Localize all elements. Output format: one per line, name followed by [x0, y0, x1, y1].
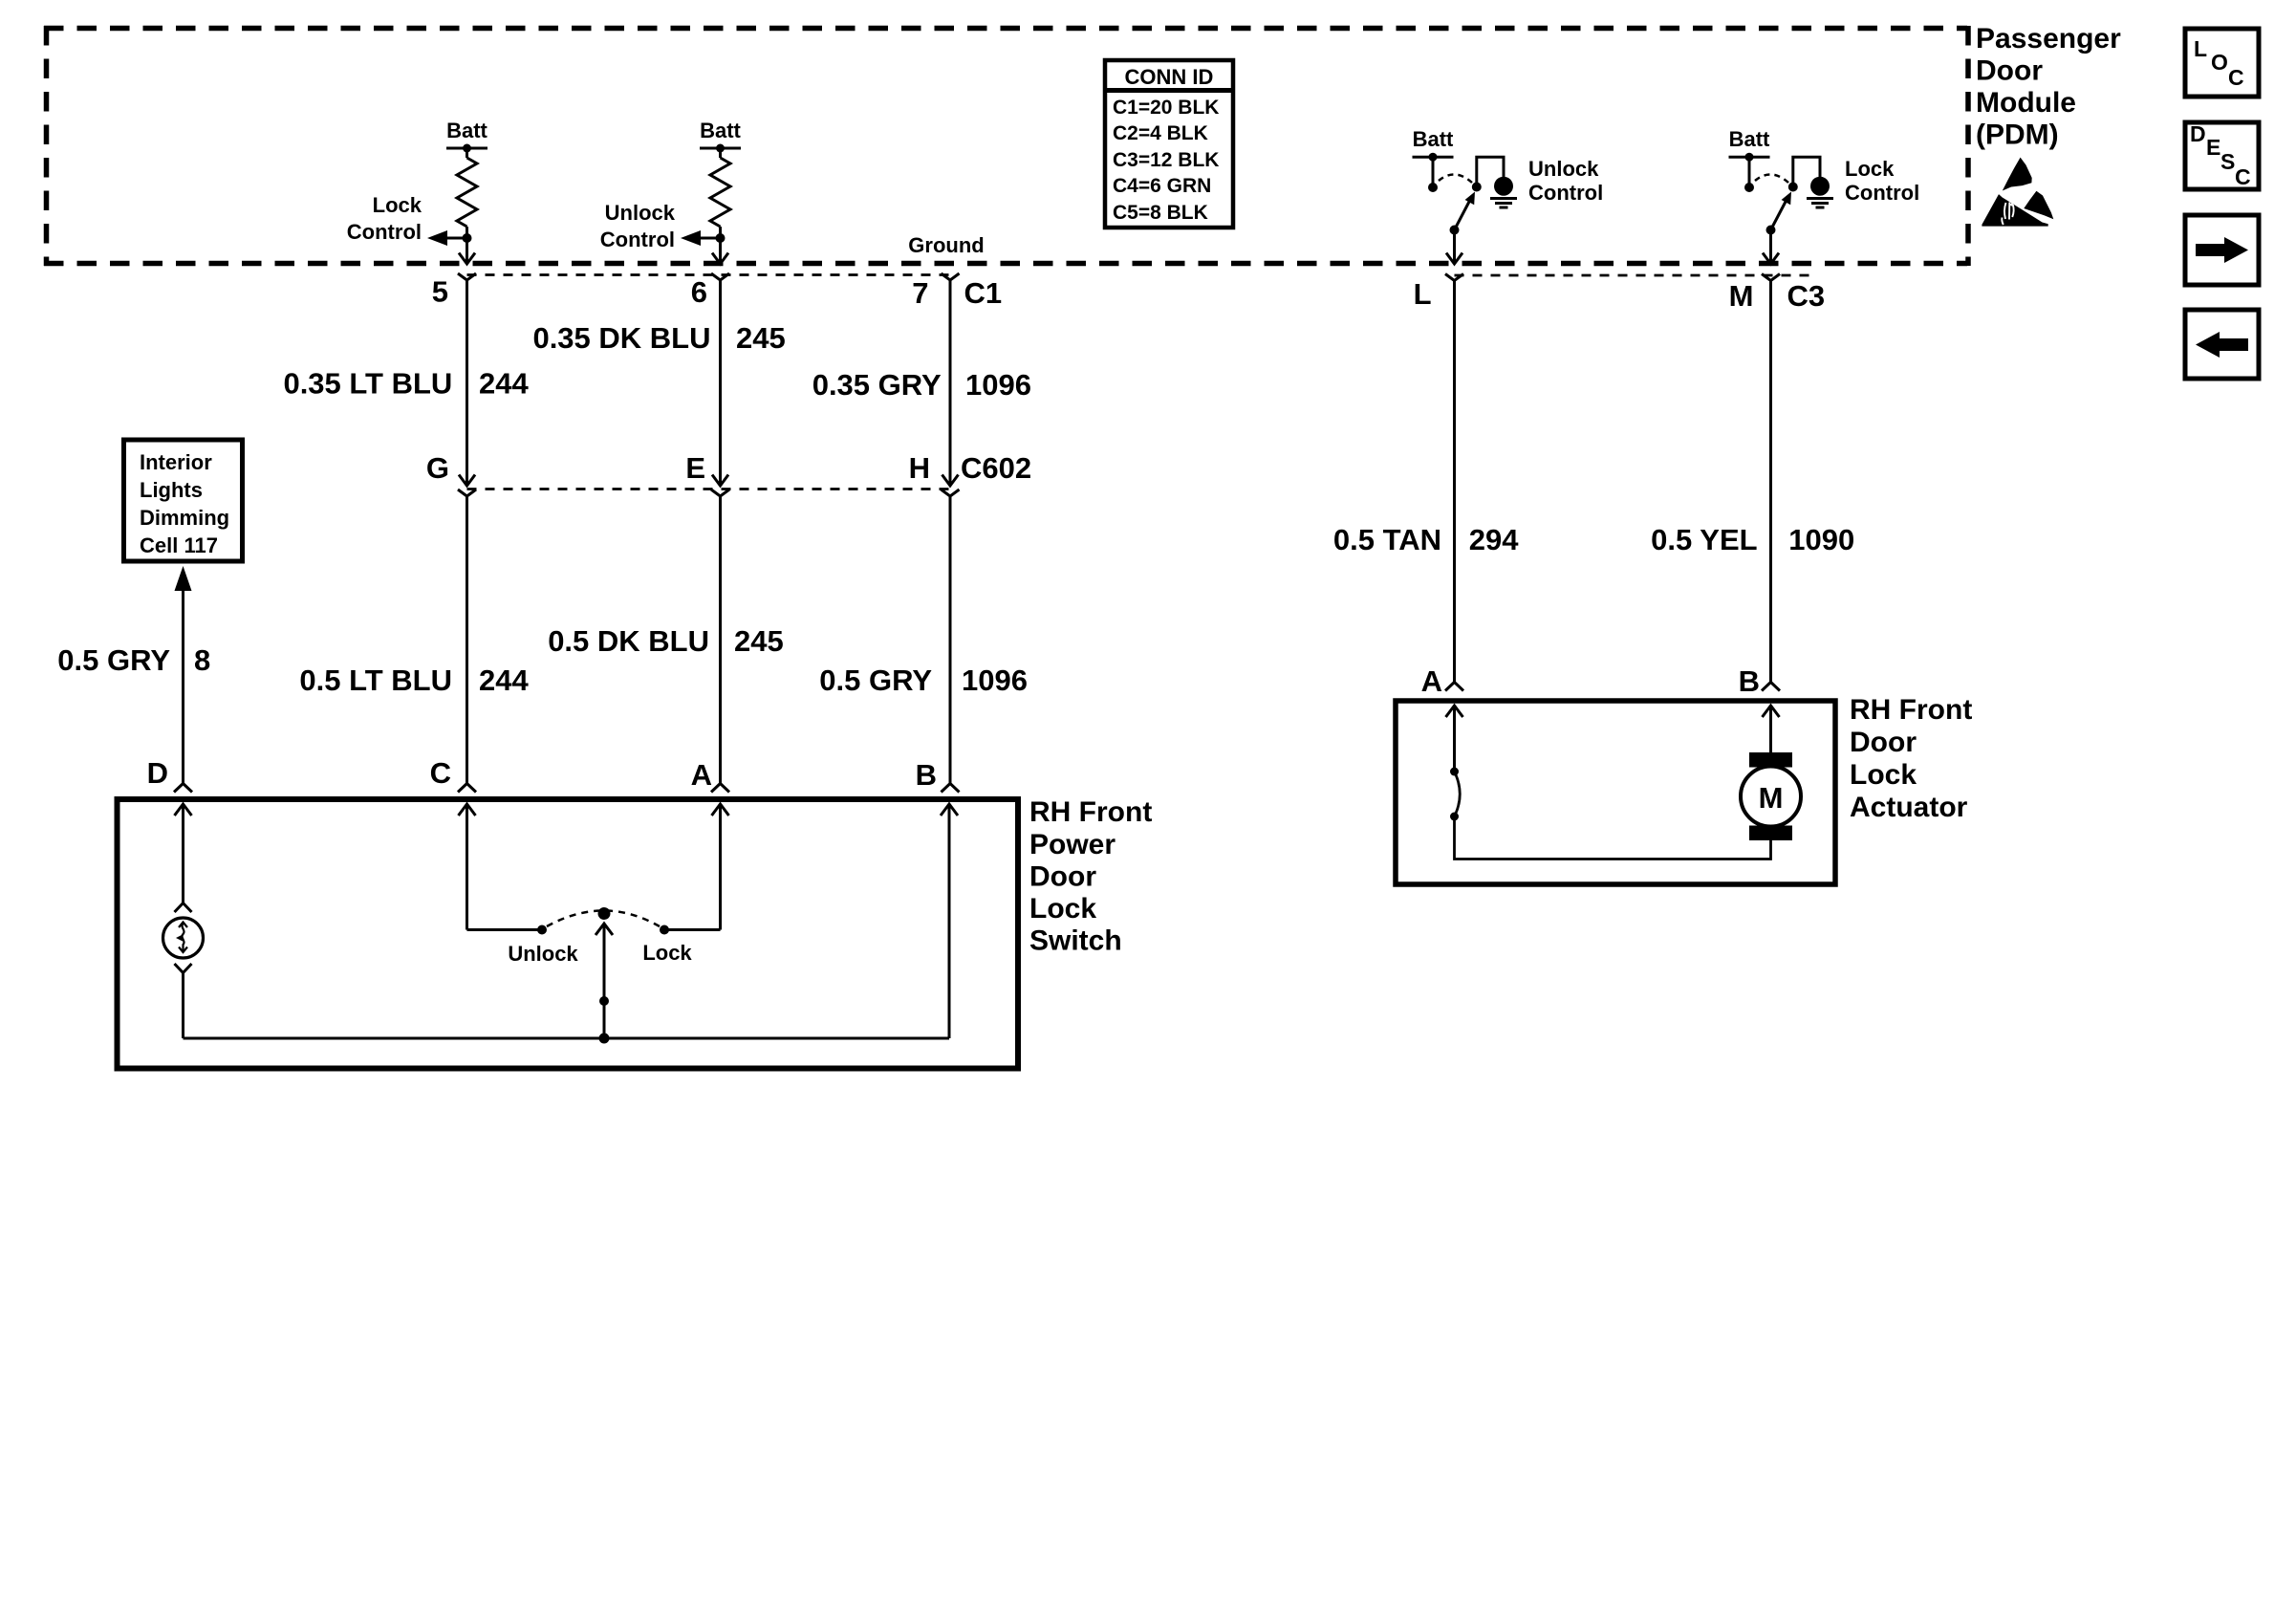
svg-text:C4=6 GRN: C4=6 GRN — [1113, 175, 1211, 197]
connector fork actuator pin B — [1762, 683, 1780, 691]
wire: pin 7 to C602 pin H (ckt 1096) — [949, 280, 952, 485]
svg-text:7: 7 — [912, 276, 928, 310]
connector fork pin E (C602) — [711, 490, 729, 496]
svg-text:Dimming: Dimming — [140, 506, 229, 530]
svg-text:E: E — [685, 451, 705, 485]
svg-text:C: C — [2235, 164, 2251, 189]
wire: pin E to switch pin A (ckt 245) — [719, 496, 722, 784]
svg-text:O: O — [2211, 50, 2228, 75]
wire: unlock control tap with left arrow — [695, 237, 721, 240]
svg-text:Control: Control — [1528, 181, 1603, 205]
svg-text:0.5 GRY: 0.5 GRY — [57, 643, 170, 677]
motor M (door lock motor) — [1749, 752, 1792, 768]
svg-text:1096: 1096 — [962, 664, 1028, 697]
connector fork pin L (C3) — [1445, 274, 1463, 281]
svg-text:Batt: Batt — [1729, 127, 1770, 151]
connector fork pin H (C602) — [942, 490, 960, 496]
connector fork actuator pin A — [1445, 683, 1463, 691]
wire: switch common bus (bottom horizontal) — [184, 1037, 950, 1040]
wire: contact bracket to ground (lock) — [1793, 157, 1820, 185]
lamp: interior illumination bulb — [163, 918, 204, 958]
connector fork pin 6 (C1) — [711, 273, 729, 280]
svg-text:0.5 TAN: 0.5 TAN — [1333, 523, 1441, 556]
wire: pole to PDM edge pin M — [1769, 230, 1772, 264]
svg-text:Power: Power — [1029, 829, 1116, 860]
svg-text:C2=4 BLK: C2=4 BLK — [1113, 122, 1208, 144]
resistor (PDM lock output driver) — [457, 158, 477, 227]
svg-text:RH Front: RH Front — [1850, 694, 1972, 726]
connector fork pin M (C3) — [1762, 274, 1780, 281]
wire: resistor to PDM edge pin 5 — [466, 227, 468, 263]
svg-text:D: D — [147, 756, 168, 790]
arrowhead into pin H — [942, 475, 959, 487]
block: RH Front Door Lock Actuator — [1396, 701, 1835, 884]
svg-text:Module: Module — [1976, 87, 2076, 119]
nav button LOC — [2185, 29, 2259, 97]
node: arm mid junction — [599, 996, 609, 1006]
arrowhead into pin 5 — [459, 253, 475, 265]
svg-text:Switch: Switch — [1029, 925, 1122, 957]
wire: PDM box left edge — [44, 26, 50, 266]
connector chevron below lamp — [175, 964, 192, 973]
svg-text:Lock: Lock — [1850, 759, 1917, 791]
switch blade arc (door lock position switch) — [1455, 772, 1461, 816]
svg-text:0.35 DK BLU: 0.35 DK BLU — [532, 321, 710, 355]
svg-text:H: H — [909, 451, 930, 485]
svg-text:M: M — [1729, 279, 1754, 313]
svg-text:C1: C1 — [964, 276, 1003, 310]
wire: pin D leg inside switch with up arrow — [175, 804, 192, 816]
svg-text:8: 8 — [194, 643, 210, 677]
Passenger Door Module (PDM) dashed enclosure box — [44, 26, 1968, 266]
svg-text:L: L — [1414, 277, 1432, 311]
connector fork pin 7 (C1) — [942, 273, 960, 280]
connector fork switch pin C — [458, 784, 476, 793]
wire: pin 6 to C602 pin E (ckt 245) — [719, 280, 722, 485]
wire: PDM box bottom edge — [44, 261, 1967, 267]
arrowhead into pin L — [1446, 253, 1462, 265]
svg-text:Unlock: Unlock — [508, 942, 578, 966]
svg-text:(PDM): (PDM) — [1976, 120, 2059, 151]
wire: Batt stub (unlock switch) — [1432, 157, 1435, 185]
ground (lock control) — [1807, 197, 1833, 200]
svg-text:RH Front: RH Front — [1029, 796, 1152, 828]
svg-text:Cell 117: Cell 117 — [140, 533, 218, 557]
switch throw dashed arc (lock) — [1755, 174, 1788, 183]
svg-text:294: 294 — [1469, 523, 1519, 556]
svg-text:Door: Door — [1976, 55, 2043, 87]
ground ball (unlock) — [1494, 177, 1513, 196]
svg-text:Actuator: Actuator — [1850, 792, 1968, 823]
wire: pin A leg inside switch with up arrow — [712, 804, 729, 816]
wire: Batt stub (lock switch) — [1748, 157, 1751, 185]
svg-text:244: 244 — [479, 367, 529, 401]
svg-text:Control: Control — [1845, 181, 1919, 205]
svg-text:Control: Control — [347, 220, 422, 244]
svg-text:Lights: Lights — [140, 478, 203, 502]
svg-text:G: G — [426, 451, 449, 485]
wire: PDM box top edge — [44, 26, 1967, 32]
connector chevron above lamp — [175, 903, 192, 913]
svg-text:E: E — [2206, 135, 2220, 160]
svg-text:CONN ID: CONN ID — [1125, 65, 1214, 89]
svg-text:Passenger: Passenger — [1976, 23, 2121, 54]
node: unlock contact — [537, 925, 547, 935]
connector fork switch pin D — [174, 784, 192, 793]
svg-text:C3=12 BLK: C3=12 BLK — [1113, 149, 1219, 171]
svg-text:245: 245 — [736, 321, 786, 355]
node: unlock grounded contact — [1472, 183, 1482, 192]
wire: pin 5 to C602 pin G (ckt 244) — [466, 280, 468, 485]
block: RH Front Power Door Lock Switch — [118, 799, 1019, 1069]
svg-text:5: 5 — [432, 275, 448, 309]
connector fork switch pin A — [711, 784, 729, 793]
arrowhead into pin E — [712, 475, 728, 487]
svg-text:245: 245 — [734, 624, 784, 658]
ground ball (lock) — [1810, 177, 1830, 196]
block: Interior Lights Dimming Cell 117 — [124, 440, 243, 561]
ground (unlock control) — [1490, 197, 1517, 200]
svg-text:0.5 GRY: 0.5 GRY — [819, 664, 932, 697]
svg-text:A: A — [1421, 664, 1442, 698]
node: arm pole (unlock) — [1450, 226, 1460, 235]
wire: pole to PDM edge pin L — [1453, 230, 1456, 264]
label: Passenger Door Module (PDM) — [1976, 23, 2121, 151]
svg-text:0.5 YEL: 0.5 YEL — [1651, 523, 1757, 556]
wire: resistor to PDM edge pin 6 — [719, 227, 722, 263]
arrowhead into pin 6 — [712, 253, 728, 265]
svg-text:0.35 GRY: 0.35 GRY — [812, 368, 942, 402]
svg-text:C3: C3 — [1787, 279, 1826, 313]
wire label 0.35 DK BLU 245 — [57, 321, 1854, 697]
thin dashed connector line C3 (pins L,M) — [1455, 274, 1812, 277]
svg-text:Ground: Ground — [908, 233, 984, 257]
node: position switch upper contact — [1450, 768, 1459, 776]
svg-text:S: S — [2220, 149, 2235, 174]
wire: pin C leg inside switch with up arrow — [459, 804, 476, 816]
svg-text:Control: Control — [600, 228, 675, 251]
wire: pin G to switch pin C (ckt 244) — [466, 496, 468, 784]
svg-text:1096: 1096 — [965, 368, 1031, 402]
wire: lock control tap with left arrow — [442, 237, 467, 240]
svg-text:M: M — [1759, 781, 1784, 815]
CONN ID table — [1105, 60, 1233, 228]
svg-text:Batt: Batt — [1413, 127, 1454, 151]
svg-text:Door: Door — [1850, 727, 1917, 758]
thin dashed connector line C1 (pins 5-7) — [467, 273, 951, 276]
svg-text:C1=20 BLK: C1=20 BLK — [1113, 97, 1219, 119]
svg-text:0.35 LT BLU: 0.35 LT BLU — [283, 367, 452, 401]
node: position switch lower contact — [1450, 813, 1459, 821]
nav button forward arrow — [2185, 215, 2259, 285]
wire: Batt to resistor (pin 5 circuit) — [466, 148, 468, 158]
svg-text:C5=8 BLK: C5=8 BLK — [1113, 202, 1208, 224]
svg-text:Batt: Batt — [446, 119, 487, 142]
node: lock control junction — [463, 233, 472, 243]
wire: pin L to actuator pin A (ckt 294) — [1453, 281, 1456, 683]
arrowhead into pin G — [459, 475, 475, 487]
svg-text:6: 6 — [691, 275, 707, 309]
wire: switch to motor return — [1455, 816, 1771, 859]
wire: pin H to switch pin B (ckt 1096) — [949, 496, 952, 784]
node: bus junction — [599, 1033, 610, 1044]
switch arm (unlock) with arrowhead — [1455, 200, 1471, 230]
thin dashed connector line C602 (pins G,E,H) — [467, 488, 951, 490]
connector fork pin 5 (C1) — [458, 273, 476, 280]
node: arm pole (lock) — [1766, 226, 1776, 235]
svg-text:C: C — [430, 756, 451, 790]
svg-text:Lock: Lock — [1029, 893, 1096, 925]
svg-text:Unlock: Unlock — [1528, 157, 1599, 181]
wire: Batt to resistor (pin 6 circuit) — [719, 148, 722, 158]
svg-text:D: D — [2190, 121, 2206, 146]
ESD sensitive device symbol — [1982, 158, 2053, 227]
node: switch pivot — [598, 907, 611, 920]
resistor (PDM unlock output driver) — [710, 158, 730, 227]
svg-text:C: C — [2228, 65, 2244, 90]
switch throw dashed arc — [547, 911, 660, 927]
nav button DESC — [2185, 122, 2259, 189]
svg-text:244: 244 — [479, 664, 529, 697]
wire: pin B leg inside actuator with up arrow — [1763, 706, 1780, 717]
svg-text:0.5 DK BLU: 0.5 DK BLU — [548, 624, 709, 658]
wire: pin B leg inside switch with up arrow — [941, 804, 958, 816]
switch arm (lock) with arrowhead — [1771, 200, 1787, 230]
svg-text:A: A — [691, 758, 712, 792]
svg-text:B: B — [1739, 664, 1760, 698]
svg-text:Lock: Lock — [1845, 157, 1895, 181]
svg-text:Lock: Lock — [373, 193, 422, 217]
svg-text:B: B — [916, 758, 937, 792]
wire: contact bracket to ground (unlock) — [1477, 157, 1504, 185]
arrowhead into pin M — [1763, 253, 1779, 265]
svg-text:Unlock: Unlock — [605, 201, 676, 225]
connector fork switch pin B — [942, 784, 960, 793]
nav button back arrow — [2185, 310, 2259, 379]
connector fork pin G (C602) — [458, 490, 476, 496]
svg-text:Lock: Lock — [642, 941, 692, 965]
node: lock contact — [660, 925, 669, 935]
wire: pin M to actuator pin B (ckt 1090) — [1769, 281, 1772, 683]
svg-text:Batt: Batt — [700, 119, 741, 142]
svg-text:L: L — [2194, 36, 2207, 61]
switch throw dashed arc (unlock) — [1439, 174, 1472, 183]
svg-text:Interior: Interior — [140, 450, 212, 474]
node: lock grounded contact — [1788, 183, 1798, 192]
switch arm: common pole with up arrow — [603, 924, 606, 1038]
svg-text:0.5 LT BLU: 0.5 LT BLU — [299, 664, 452, 697]
wire: pin A leg inside actuator with up arrow — [1446, 706, 1463, 717]
wire: lamp to switch common bus — [182, 973, 184, 1039]
wire: ckt 8 up-arrow into dimming cell — [175, 566, 192, 591]
svg-text:1090: 1090 — [1788, 523, 1854, 556]
svg-text:Door: Door — [1029, 861, 1096, 893]
wire: PDM box right edge — [1965, 26, 1971, 266]
svg-text:C602: C602 — [961, 451, 1031, 485]
node: unlock control junction — [716, 233, 726, 243]
